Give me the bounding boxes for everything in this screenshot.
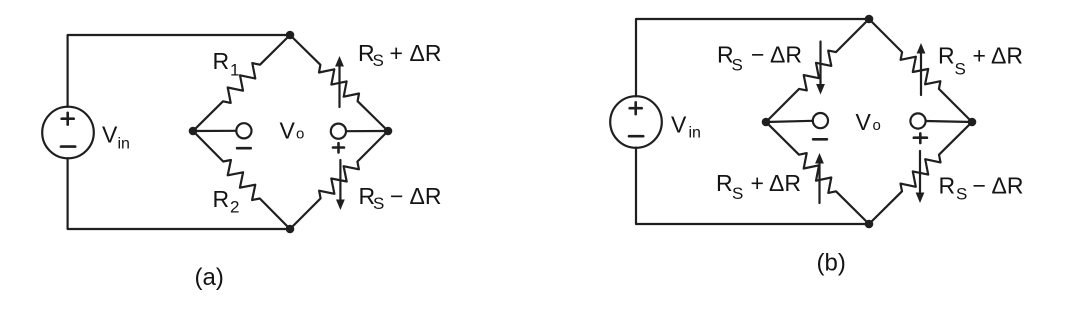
arrow down through RS-dR (b top-left) (819, 42, 821, 86)
svg-text:(a): (a) (195, 264, 224, 291)
variable resistor RS+dR : bottom-left arm of bridge (b) (766, 122, 869, 224)
node bottom (b) (865, 220, 874, 229)
svg-text:(b): (b) (817, 250, 846, 277)
resistor R2 : bottom-left arm of bridge (a) (193, 131, 290, 229)
wire: (a) bottom wire from source to bottom node (68, 158, 290, 229)
svg-text:1: 1 (230, 61, 239, 80)
svg-text:R: R (938, 43, 955, 69)
svg-text:R: R (939, 173, 956, 199)
svg-text:V: V (280, 118, 296, 144)
output terminal plus (a) (331, 124, 346, 139)
node top (a) (286, 31, 295, 40)
arrow down through RS-dR (b bottom-right) (919, 151, 921, 194)
wire: (b) left node to output terminal (766, 121, 813, 122)
svg-text:V: V (671, 112, 687, 138)
output terminal plus (b) (910, 113, 925, 128)
svg-text:+: + (390, 40, 403, 66)
svg-text:ΔR: ΔR (410, 40, 442, 66)
node left (b) (762, 118, 771, 127)
svg-text:−: − (390, 183, 403, 209)
svg-text:o: o (296, 126, 304, 143)
svg-text:−: − (751, 42, 764, 68)
svg-text:2: 2 (230, 198, 239, 217)
wire: (a) top wire from source to top node (68, 35, 290, 107)
svg-text:in: in (689, 125, 701, 142)
output terminal minus (b) (813, 113, 828, 128)
svg-text:V: V (856, 109, 872, 135)
node top (b) (865, 15, 874, 24)
svg-text:in: in (118, 136, 130, 153)
resistor R1 : top-left arm of bridge (a) (193, 35, 290, 131)
arrow up through RS+dR (b bottom-left) (818, 163, 820, 204)
arrow up through RS+dR (a) (338, 66, 340, 108)
wire: (b) output terminal to right node (926, 121, 972, 122)
arrow up through RS+dR (b top-right) (920, 53, 922, 96)
svg-text:ΔR: ΔR (410, 183, 442, 209)
wire: (a) output terminal to right node (346, 130, 388, 132)
svg-text:+: + (751, 170, 764, 196)
node left (a) (189, 127, 198, 136)
wire: (b) top wire from source to top node (636, 19, 869, 96)
node right (b) (968, 118, 977, 127)
svg-text:V: V (102, 122, 118, 148)
variable resistor RS+dR : top-right arm of bridge (b) (869, 19, 972, 122)
svg-text:S: S (956, 185, 967, 204)
svg-text:R: R (716, 170, 733, 196)
variable resistor RS-dR : top-left arm of bridge (b) (766, 19, 869, 122)
variable resistor RS-dR : bottom-right arm of bridge (a) (290, 131, 388, 229)
svg-text:S: S (732, 184, 743, 203)
wire: (a) left node to output terminal (193, 130, 236, 132)
svg-text:o: o (873, 117, 881, 134)
svg-text:S: S (373, 194, 384, 213)
svg-text:ΔR: ΔR (770, 42, 802, 68)
svg-text:−: − (973, 173, 986, 199)
node bottom (a) (286, 225, 295, 234)
svg-text:+: + (973, 43, 986, 69)
voltage source V_in (a) (42, 107, 94, 159)
voltage source V_in (b) (610, 96, 662, 148)
node right (a) (384, 127, 393, 136)
variable resistor RS+dR : top-right arm of bridge (a) (290, 35, 388, 131)
variable resistor RS-dR : bottom-right arm of bridge (b) (869, 122, 972, 224)
wire: (b) bottom wire from source to bottom node (636, 148, 869, 224)
svg-text:R: R (213, 186, 230, 212)
svg-text:ΔR: ΔR (992, 173, 1024, 199)
svg-text:S: S (373, 51, 384, 70)
arrow down through RS-dR (a) (339, 160, 341, 201)
output terminal minus (a) (236, 123, 251, 138)
svg-text:ΔR: ΔR (769, 170, 801, 196)
svg-text:S: S (732, 56, 743, 75)
svg-text:ΔR: ΔR (991, 43, 1023, 69)
svg-text:S: S (955, 60, 966, 79)
svg-text:R: R (213, 48, 230, 74)
